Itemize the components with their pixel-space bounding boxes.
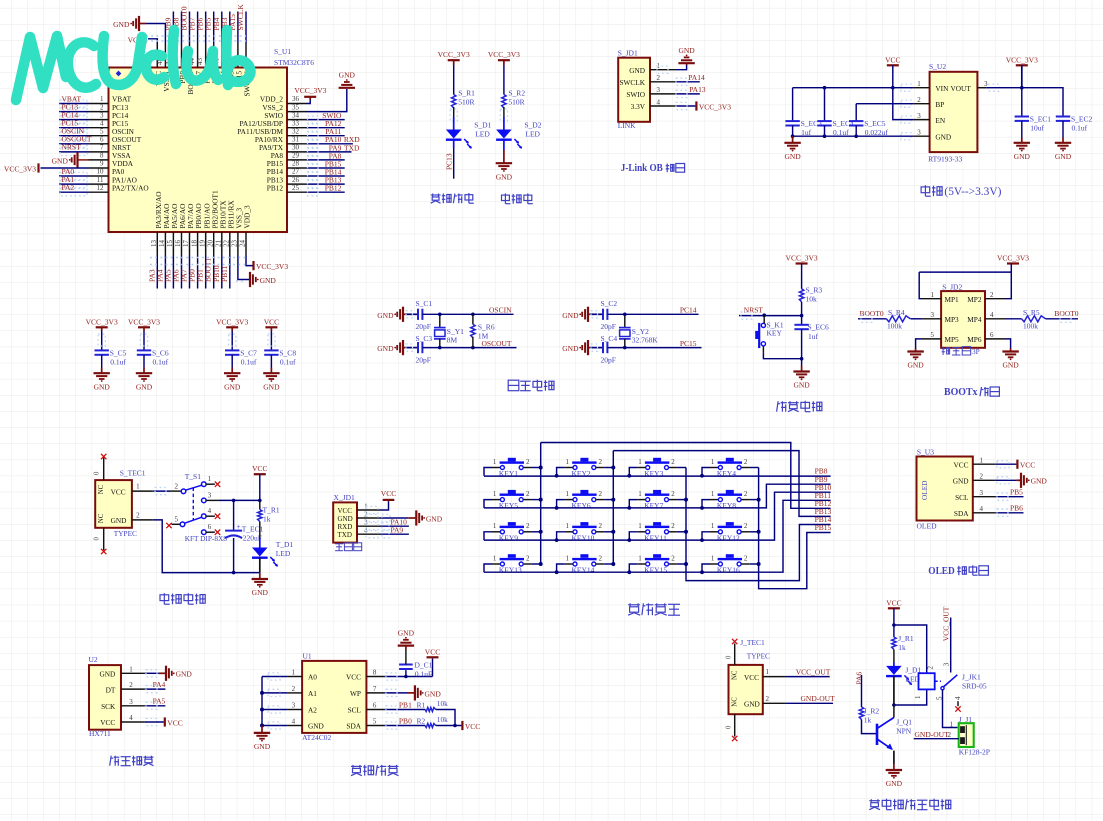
svg-text:KEY9: KEY9: [499, 533, 518, 542]
svg-text:33: 33: [292, 119, 300, 127]
svg-text:32: 32: [292, 127, 300, 135]
svg-text:PA5: PA5: [153, 697, 166, 706]
svg-text:D_C1: D_C1: [415, 660, 433, 669]
svg-text:VCC: VCC: [886, 598, 901, 607]
svg-text:1: 1: [914, 695, 922, 699]
svg-text:PB12: PB12: [325, 184, 342, 193]
svg-text:GND: GND: [629, 66, 645, 75]
svg-text:10k: 10k: [437, 699, 448, 708]
svg-text:GND: GND: [377, 311, 394, 320]
svg-text:2: 2: [948, 731, 952, 739]
svg-text:3: 3: [931, 311, 935, 319]
svg-text:7: 7: [100, 144, 104, 152]
svg-text:U2: U2: [89, 655, 98, 664]
svg-text:GND: GND: [562, 311, 579, 320]
svg-text:VOUT: VOUT: [951, 84, 972, 93]
svg-text:S_C2: S_C2: [601, 299, 618, 308]
svg-text:TYPEC: TYPEC: [747, 652, 770, 661]
svg-text:1: 1: [566, 458, 570, 466]
svg-text:5: 5: [100, 127, 104, 135]
svg-text:2: 2: [671, 490, 675, 498]
svg-text:LED: LED: [475, 129, 490, 138]
svg-text:OSCOUT: OSCOUT: [481, 339, 511, 348]
svg-text:2: 2: [599, 522, 603, 530]
svg-text:100k: 100k: [1023, 322, 1038, 331]
svg-text:2: 2: [980, 473, 984, 481]
svg-text:+: +: [237, 523, 241, 531]
svg-text:30: 30: [292, 144, 300, 152]
svg-text:KFT DIP-8X8: KFT DIP-8X8: [185, 534, 228, 543]
svg-text:SCL: SCL: [348, 706, 362, 715]
svg-text:VCC_OUT: VCC_OUT: [796, 667, 831, 676]
svg-text:PA9: PA9: [391, 526, 404, 535]
svg-text:S_R5: S_R5: [1023, 308, 1040, 317]
svg-text:1: 1: [493, 554, 497, 562]
svg-text:VCC_3V3: VCC_3V3: [997, 254, 1029, 263]
svg-text:3: 3: [208, 491, 212, 499]
svg-text:SWCLK: SWCLK: [619, 78, 645, 87]
svg-text:NPN: NPN: [896, 727, 912, 736]
svg-text:28: 28: [292, 160, 300, 168]
svg-text:KEY7: KEY7: [644, 501, 663, 510]
svg-text:S_JD1: S_JD1: [618, 48, 638, 57]
svg-text:0.1uf: 0.1uf: [241, 357, 257, 366]
svg-text:8M: 8M: [447, 336, 458, 345]
svg-text:S_D1: S_D1: [474, 120, 491, 129]
svg-text:X_JD1: X_JD1: [334, 493, 356, 502]
svg-text:2: 2: [744, 458, 748, 466]
svg-text:21: 21: [215, 240, 223, 248]
svg-text:VDD_3: VDD_3: [243, 205, 252, 228]
svg-text:36: 36: [292, 95, 300, 103]
svg-text:NC: NC: [98, 484, 105, 494]
svg-text:A2: A2: [308, 706, 317, 715]
svg-text:18: 18: [190, 240, 198, 248]
svg-text:KEY14: KEY14: [572, 566, 595, 575]
svg-text:S_C6: S_C6: [152, 348, 169, 357]
svg-text:1: 1: [638, 490, 642, 498]
svg-text:2: 2: [671, 554, 675, 562]
svg-text:3: 3: [917, 129, 921, 137]
svg-text:PB15: PB15: [815, 523, 832, 532]
svg-text:GND: GND: [1055, 152, 1072, 161]
svg-text:BOOT0: BOOT0: [1054, 309, 1078, 318]
svg-text:WP: WP: [350, 689, 361, 698]
svg-text:GND: GND: [254, 742, 271, 751]
svg-text:VCC: VCC: [953, 460, 968, 469]
svg-text:GND: GND: [136, 382, 153, 391]
svg-text:2: 2: [292, 685, 296, 693]
svg-text:3: 3: [980, 489, 984, 497]
svg-text:20pF: 20pF: [601, 356, 616, 365]
svg-text:15: 15: [166, 240, 174, 248]
svg-text:VCC_3V3: VCC_3V3: [128, 318, 160, 327]
svg-text:5: 5: [931, 331, 935, 339]
svg-text:1: 1: [566, 554, 570, 562]
svg-text:6: 6: [373, 702, 377, 710]
svg-text:VCC: VCC: [885, 55, 900, 64]
svg-text:S_R6: S_R6: [478, 322, 495, 331]
svg-text:GND: GND: [1031, 477, 1048, 486]
svg-text:GND: GND: [425, 689, 442, 698]
svg-text:S_U2: S_U2: [929, 62, 946, 71]
svg-text:23: 23: [231, 240, 239, 248]
svg-text:PB1: PB1: [399, 700, 412, 709]
svg-text:S_C4: S_C4: [601, 334, 618, 343]
svg-text:2: 2: [599, 458, 603, 466]
svg-text:34: 34: [292, 111, 300, 119]
svg-text:GND: GND: [562, 344, 579, 353]
svg-text:KEY15: KEY15: [644, 566, 667, 575]
svg-text:1: 1: [638, 522, 642, 530]
svg-text:T_R1: T_R1: [263, 506, 280, 515]
svg-text:4: 4: [129, 714, 133, 722]
svg-text:RT9193-33: RT9193-33: [928, 155, 962, 164]
svg-text:GND: GND: [113, 20, 130, 29]
svg-text:J_R1: J_R1: [898, 634, 914, 643]
svg-text:20pF: 20pF: [416, 322, 431, 331]
svg-text:GND: GND: [793, 381, 810, 390]
svg-text:1: 1: [931, 291, 935, 299]
svg-text:SWCLK: SWCLK: [236, 4, 245, 31]
svg-text:1k: 1k: [898, 643, 906, 652]
svg-text:VCC_3V3: VCC_3V3: [438, 50, 470, 59]
svg-text:GND: GND: [886, 779, 903, 788]
svg-text:VCC: VCC: [744, 673, 759, 682]
svg-text:VCC_3V3: VCC_3V3: [4, 165, 36, 174]
svg-text:GND: GND: [339, 71, 356, 80]
svg-text:3: 3: [943, 662, 951, 666]
svg-text:GND: GND: [263, 382, 280, 391]
svg-text:0.1uf: 0.1uf: [110, 357, 126, 366]
svg-text:S_C1: S_C1: [416, 299, 433, 308]
svg-text:OLED: OLED: [928, 565, 955, 577]
svg-text:3: 3: [129, 698, 133, 706]
svg-text:0: 0: [726, 725, 733, 729]
svg-text:1: 1: [493, 458, 497, 466]
svg-text:6: 6: [100, 136, 104, 144]
svg-text:MP3: MP3: [945, 315, 960, 324]
svg-text:20: 20: [206, 240, 214, 248]
svg-text:NC: NC: [732, 670, 739, 680]
svg-text:VCC: VCC: [264, 318, 279, 327]
svg-text:GND: GND: [224, 382, 241, 391]
svg-text:KEY5: KEY5: [499, 501, 518, 510]
svg-text:2: 2: [100, 103, 104, 111]
svg-text:11: 11: [97, 176, 104, 184]
svg-text:S_EC2: S_EC2: [1071, 115, 1093, 124]
svg-text:35: 35: [292, 103, 300, 111]
svg-text:HX711: HX711: [89, 729, 111, 738]
svg-text:VCC_3V3: VCC_3V3: [1006, 55, 1038, 64]
svg-text:J_JK1: J_JK1: [962, 673, 981, 682]
svg-text:GND: GND: [935, 132, 951, 141]
svg-text:MP4: MP4: [967, 315, 982, 324]
svg-text:12: 12: [97, 184, 105, 192]
svg-text:2: 2: [671, 458, 675, 466]
svg-text:20pF: 20pF: [601, 322, 616, 331]
svg-text:MP5: MP5: [945, 335, 960, 344]
svg-text:T_S1: T_S1: [185, 472, 202, 481]
svg-text:9: 9: [100, 160, 104, 168]
svg-text:LED: LED: [276, 549, 291, 558]
svg-text:SCK: SCK: [101, 702, 116, 711]
svg-text:KEY6: KEY6: [572, 501, 591, 510]
svg-text:VCC: VCC: [111, 487, 126, 496]
svg-text:PA13: PA13: [689, 85, 706, 94]
svg-text:VIN: VIN: [935, 84, 949, 93]
svg-text:2: 2: [526, 554, 530, 562]
svg-text:T_D1: T_D1: [276, 540, 294, 549]
svg-text:1k: 1k: [864, 715, 872, 724]
svg-text:VCC: VCC: [1020, 461, 1035, 470]
svg-text:43: 43: [196, 58, 204, 66]
svg-text:LED: LED: [525, 129, 540, 138]
svg-text:2: 2: [136, 512, 140, 520]
svg-text:2: 2: [657, 74, 661, 82]
svg-text:PA14: PA14: [688, 73, 705, 82]
svg-text:S_EC1: S_EC1: [1030, 115, 1052, 124]
svg-text:PA2: PA2: [62, 183, 75, 192]
svg-text:GND: GND: [784, 152, 801, 161]
svg-text:S_U1: S_U1: [274, 47, 291, 56]
svg-text:2: 2: [917, 96, 921, 104]
svg-text:TXD: TXD: [338, 531, 352, 539]
svg-text:PC13: PC13: [444, 153, 453, 170]
svg-text:PB6: PB6: [1010, 504, 1023, 513]
svg-text:S_D2: S_D2: [524, 120, 541, 129]
svg-text:29: 29: [292, 152, 300, 160]
svg-text:PA2/TX/AO: PA2/TX/AO: [112, 183, 149, 192]
svg-text:2: 2: [990, 291, 994, 299]
svg-text:DT: DT: [106, 685, 116, 694]
svg-text:KEY13: KEY13: [499, 566, 522, 575]
svg-text:7: 7: [373, 685, 377, 693]
svg-text:GND: GND: [308, 722, 324, 731]
svg-text:6: 6: [208, 523, 212, 531]
svg-text:S_C7: S_C7: [240, 348, 257, 357]
svg-text:EN: EN: [935, 116, 945, 125]
svg-text:0: 0: [94, 471, 101, 475]
svg-text:2: 2: [599, 554, 603, 562]
svg-text:GND: GND: [94, 382, 111, 391]
svg-text:NRST: NRST: [744, 305, 764, 314]
svg-text:SDA: SDA: [954, 509, 969, 518]
svg-text:2: 2: [744, 490, 748, 498]
svg-text:1k: 1k: [263, 515, 271, 524]
svg-text:GND: GND: [99, 670, 115, 679]
svg-text:STM32C8T6: STM32C8T6: [274, 58, 314, 67]
svg-text:KEY11: KEY11: [644, 533, 667, 542]
svg-text:2: 2: [175, 482, 179, 490]
svg-text:2: 2: [129, 681, 133, 689]
svg-text:14: 14: [158, 240, 166, 248]
svg-text:NC: NC: [732, 697, 739, 707]
svg-text:KEY10: KEY10: [572, 533, 595, 542]
svg-text:PB12: PB12: [267, 183, 284, 192]
svg-text:1: 1: [292, 669, 296, 677]
svg-text:1: 1: [711, 458, 715, 466]
svg-text:1: 1: [711, 554, 715, 562]
svg-text:27: 27: [292, 168, 300, 176]
svg-text:1: 1: [711, 490, 715, 498]
svg-text:GND: GND: [1002, 361, 1019, 370]
svg-text:GND: GND: [377, 344, 394, 353]
svg-text:LINK: LINK: [618, 121, 636, 130]
svg-text:BOOT0: BOOT0: [860, 309, 884, 318]
svg-text:R1: R1: [417, 700, 426, 709]
svg-text:AT24C02: AT24C02: [302, 733, 331, 742]
svg-text:GND: GND: [907, 361, 924, 370]
svg-text:GND: GND: [744, 700, 760, 709]
svg-text:2: 2: [671, 522, 675, 530]
svg-text:MP2: MP2: [967, 295, 982, 304]
svg-text:TYPEC: TYPEC: [114, 529, 137, 538]
svg-text:RXD: RXD: [338, 523, 353, 531]
svg-text:VCC: VCC: [338, 507, 353, 515]
svg-text:GND: GND: [52, 157, 69, 166]
svg-text:OLED: OLED: [917, 521, 938, 530]
svg-text:VCC: VCC: [100, 718, 115, 727]
svg-text:4: 4: [657, 98, 661, 106]
svg-text:GND: GND: [176, 670, 193, 679]
svg-text:10k: 10k: [437, 715, 448, 724]
svg-text:3: 3: [100, 111, 104, 119]
svg-text:VCC: VCC: [167, 719, 182, 728]
svg-text:S_U3: S_U3: [917, 447, 934, 456]
svg-text:SRD-05: SRD-05: [962, 682, 987, 691]
svg-text:2: 2: [599, 490, 603, 498]
svg-text:GND: GND: [953, 477, 969, 486]
svg-text:1: 1: [493, 522, 497, 530]
svg-text:1: 1: [493, 490, 497, 498]
svg-text:10uf: 10uf: [1030, 124, 1044, 133]
svg-text:VCC: VCC: [465, 722, 480, 731]
svg-text:J_TEC1: J_TEC1: [740, 638, 765, 647]
svg-text:VCC: VCC: [252, 464, 267, 473]
svg-text:4: 4: [954, 696, 962, 700]
svg-text:S_Y2: S_Y2: [632, 327, 649, 336]
svg-text:R2: R2: [417, 716, 426, 725]
svg-text:1: 1: [136, 483, 140, 491]
svg-text:KF128-2P: KF128-2P: [959, 748, 990, 757]
svg-text:4: 4: [292, 718, 296, 726]
svg-text:4: 4: [100, 119, 104, 127]
svg-text:A0: A0: [308, 673, 317, 682]
svg-text:3P: 3P: [972, 347, 980, 356]
svg-text:16: 16: [174, 240, 182, 248]
svg-text:KEY16: KEY16: [717, 566, 740, 575]
svg-text:SWIO: SWIO: [626, 90, 645, 99]
svg-text:0.1uf: 0.1uf: [153, 357, 169, 366]
svg-text:10k: 10k: [806, 295, 818, 304]
svg-text:GND: GND: [260, 276, 277, 285]
svg-text:1: 1: [129, 665, 133, 673]
svg-text:2: 2: [526, 458, 530, 466]
svg-text:NC: NC: [98, 513, 105, 523]
svg-text:S_R1: S_R1: [458, 89, 475, 98]
svg-text:GND-OUT: GND-OUT: [915, 730, 950, 739]
svg-text:3: 3: [657, 86, 661, 94]
svg-text:PC15: PC15: [680, 339, 697, 348]
svg-text:KEY12: KEY12: [717, 533, 740, 542]
svg-text:GND: GND: [252, 588, 269, 597]
svg-text:(5V-->3.3V): (5V-->3.3V): [944, 186, 1001, 198]
svg-text:GND: GND: [496, 172, 513, 181]
svg-text:3: 3: [917, 112, 921, 120]
svg-text:OSCIN: OSCIN: [489, 306, 512, 315]
svg-text:100k: 100k: [887, 322, 902, 331]
svg-text:0: 0: [94, 537, 101, 541]
svg-text:25: 25: [292, 184, 300, 192]
svg-text:510R: 510R: [508, 98, 524, 107]
svg-text:S_EC5: S_EC5: [864, 119, 886, 128]
svg-text:PC14: PC14: [680, 306, 697, 315]
svg-text:SCL: SCL: [955, 493, 969, 502]
svg-text:1: 1: [638, 458, 642, 466]
svg-text:S_R2: S_R2: [508, 89, 525, 98]
svg-text:VCC_3V3: VCC_3V3: [786, 254, 818, 263]
svg-text:KEY: KEY: [767, 329, 783, 338]
svg-text:U1: U1: [303, 652, 312, 661]
svg-text:24: 24: [239, 240, 247, 248]
svg-text:1uf: 1uf: [808, 332, 819, 341]
svg-text:MP6: MP6: [967, 335, 982, 344]
svg-text:1: 1: [917, 80, 921, 88]
svg-text:VCC_3V3: VCC_3V3: [294, 86, 326, 95]
svg-text:KEY8: KEY8: [717, 501, 736, 510]
svg-text:J_Q1: J_Q1: [896, 718, 912, 727]
svg-text:1: 1: [950, 720, 954, 728]
svg-text:4: 4: [208, 507, 212, 515]
svg-text:MP1: MP1: [945, 295, 960, 304]
svg-text:GND: GND: [678, 46, 695, 55]
svg-text:17: 17: [182, 240, 190, 248]
svg-text:1: 1: [100, 95, 104, 103]
svg-text:10: 10: [97, 168, 105, 176]
svg-text:4: 4: [990, 311, 994, 319]
svg-text:22: 22: [223, 240, 231, 248]
svg-text:VCC_3V3: VCC_3V3: [216, 318, 248, 327]
svg-text:2: 2: [766, 695, 770, 703]
svg-text:3: 3: [292, 702, 296, 710]
svg-text:1: 1: [566, 522, 570, 530]
svg-text:VCC_3V3: VCC_3V3: [488, 50, 520, 59]
svg-text:GND: GND: [111, 516, 127, 525]
svg-text:PB11: PB11: [220, 265, 229, 282]
svg-text:3.3V: 3.3V: [631, 102, 646, 111]
svg-text:S_R4: S_R4: [888, 308, 905, 317]
svg-text:8: 8: [373, 669, 377, 677]
svg-text:VCC_3V3: VCC_3V3: [86, 318, 118, 327]
svg-text:PB0: PB0: [399, 716, 412, 725]
svg-text:OLED: OLED: [920, 481, 929, 500]
svg-text:S_C3: S_C3: [416, 334, 433, 343]
svg-text:GND: GND: [426, 514, 443, 523]
svg-text:S_Y1: S_Y1: [447, 327, 464, 336]
svg-text:0: 0: [726, 655, 733, 659]
svg-text:1: 1: [208, 475, 212, 483]
svg-text:32.768K: 32.768K: [632, 336, 659, 345]
svg-text:PB5: PB5: [1010, 488, 1023, 497]
svg-text:TXD: TXD: [344, 143, 360, 152]
svg-text:GND: GND: [398, 628, 415, 637]
svg-text:A1: A1: [308, 689, 317, 698]
svg-text:SDA: SDA: [346, 722, 361, 731]
svg-text:2: 2: [744, 522, 748, 530]
svg-text:4: 4: [980, 505, 984, 513]
svg-text:26: 26: [292, 176, 300, 184]
